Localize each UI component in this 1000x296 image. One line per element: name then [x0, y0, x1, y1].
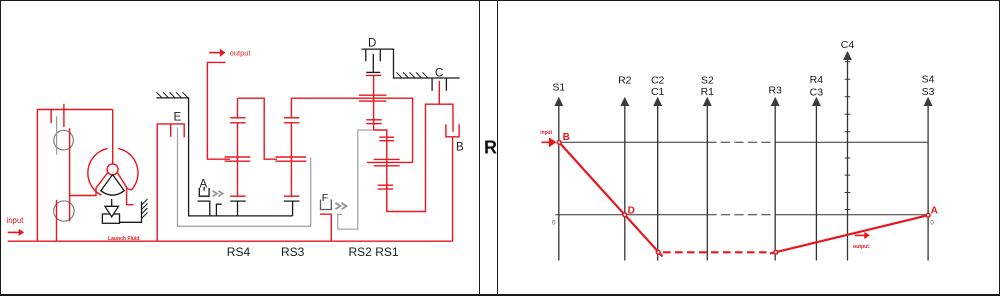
svg-text:A: A: [931, 205, 938, 216]
svg-text:C1: C1: [651, 86, 665, 98]
svg-text:input: input: [7, 216, 25, 225]
svg-text:C4: C4: [841, 39, 855, 51]
svg-text:output: output: [230, 49, 251, 58]
svg-text:B: B: [456, 142, 464, 154]
svg-text:R2: R2: [618, 75, 632, 87]
svg-text:R1: R1: [701, 86, 715, 98]
svg-text:D: D: [628, 205, 635, 216]
svg-text:RS1: RS1: [375, 245, 399, 259]
svg-text:S3: S3: [922, 86, 935, 98]
svg-text:C: C: [435, 68, 443, 80]
svg-text:Launch Fluid: Launch Fluid: [108, 236, 140, 242]
svg-text:R: R: [484, 138, 497, 158]
svg-text:R3: R3: [768, 84, 782, 96]
svg-text:R4: R4: [810, 74, 824, 86]
svg-text:C3: C3: [810, 87, 824, 99]
svg-text:output: output: [853, 244, 869, 250]
svg-text:F: F: [322, 192, 328, 204]
svg-text:D: D: [368, 38, 376, 50]
svg-text:S4: S4: [922, 74, 935, 86]
svg-text:input: input: [540, 130, 552, 136]
svg-text:B: B: [563, 132, 570, 143]
svg-text:RS4: RS4: [227, 245, 251, 259]
svg-text:S2: S2: [701, 75, 714, 87]
svg-text:RS3: RS3: [281, 245, 305, 259]
svg-text:S1: S1: [552, 82, 565, 94]
svg-text:0: 0: [930, 220, 934, 227]
svg-text:0: 0: [552, 220, 556, 227]
svg-text:RS2: RS2: [349, 245, 373, 259]
svg-text:C2: C2: [651, 75, 665, 87]
svg-text:E: E: [174, 112, 182, 124]
